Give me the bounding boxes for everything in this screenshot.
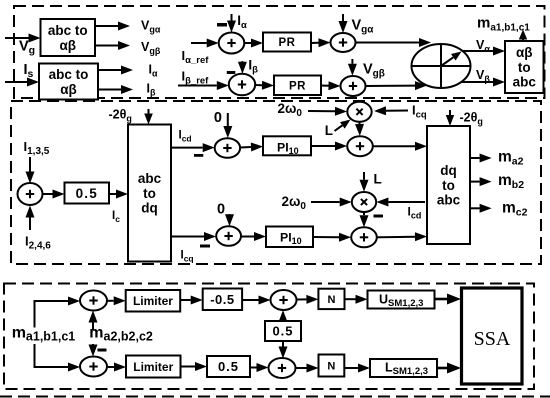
wire S3 to phasor circle: [356, 42, 420, 44]
wire Vgb feedforward arrow down: [351, 59, 353, 64]
summing junction S3 (alpha voltage): [331, 33, 356, 52]
wire 2w0 arrow into multiplier M2: [311, 201, 340, 203]
minus sign at S12: [98, 349, 107, 352]
wire U-SM to SSA (thick): [435, 298, 448, 301]
svg-text:abc to: abc to: [48, 23, 88, 38]
wire 0 arrow down into S6: [227, 113, 229, 126]
svg-text:N: N: [327, 294, 335, 306]
wire S7 to dq-abc: [373, 145, 415, 147]
summing junction S4 (beta voltage): [341, 76, 366, 96]
block abc-to-dq: [128, 125, 171, 262]
block gain 0.5 (mid): [265, 321, 301, 341]
wire S2 to PR2: [255, 84, 262, 86]
block SSA: [462, 288, 523, 384]
wire S11 to N1: [297, 298, 307, 300]
block Limiter (upper): [126, 290, 181, 312]
summing junction S10 (upper arm): [80, 291, 107, 311]
minus sign below M2: [374, 215, 384, 218]
wire Vg input arrow: [5, 37, 29, 39]
wire Limiter1 to -0.5: [180, 299, 191, 301]
multiplier M2 (cross coupling d): [352, 192, 376, 212]
summing junction S8 (q-axis error): [216, 226, 241, 246]
wire 0 arrow down into S8: [229, 213, 231, 216]
wire Icd from abc-dq to S6: [171, 147, 203, 149]
summing junction S12 (lower arm): [80, 357, 107, 377]
block N (upper): [318, 289, 344, 309]
svg-text:αβ: αβ: [60, 82, 77, 97]
svg-text:PR: PR: [279, 37, 296, 49]
wire L arrow down into M2: [363, 172, 365, 180]
wire I-alpha output arrow: [98, 69, 121, 71]
wire M1 down into S7: [359, 122, 361, 124]
svg-text:0: 0: [217, 202, 225, 218]
wire ma1b1c1 output arrow up: [522, 40, 524, 42]
block Limiter (lower): [126, 356, 181, 378]
block PR2 (proportional resonant): [274, 76, 321, 96]
wire ma1 branch vertical bottom: [34, 344, 36, 368]
minus sign at summing junction S2: [227, 71, 236, 74]
wire Vg-beta output arrow: [95, 45, 118, 47]
wire -2theta-g arrow down into dq-abc: [449, 110, 451, 115]
svg-text:SSA: SSA: [474, 328, 511, 350]
section 2 dashed border (circulating current loop): [11, 101, 541, 264]
wire PR2 to S4: [321, 85, 329, 87]
block gain -0.5: [203, 289, 242, 311]
svg-text:to: to: [442, 178, 455, 193]
block PI10 (q-axis): [266, 227, 313, 248]
svg-text:Limiter: Limiter: [133, 294, 173, 308]
bottom partial dashed line: [0, 396, 550, 398]
summing junction S13 (lower mod): [269, 358, 296, 378]
wire I-beta output arrow: [98, 89, 121, 91]
wire ma1 to S12: [34, 366, 69, 368]
wire I135 arrow down: [29, 157, 31, 172]
block N (lower): [319, 355, 345, 377]
wire V-alpha to alphabeta-abc box: [462, 50, 493, 52]
wire Icd arrow into M2 from right: [388, 201, 425, 203]
svg-text:L: L: [374, 172, 382, 187]
block PR1 (proportional resonant): [263, 33, 311, 52]
wire N2 to L-SM: [344, 367, 358, 369]
phasor/modulation circle: [412, 44, 471, 88]
wire V-beta to alphabeta-abc box: [461, 81, 493, 83]
wire L-SM to SSA (thick): [437, 367, 447, 370]
summing junction S2 (beta current error): [229, 74, 255, 96]
wire ma1 branch vertical top: [34, 301, 36, 328]
wire mb2 output arrow: [470, 181, 480, 183]
summing junction S1 (alpha current error): [219, 33, 245, 54]
svg-text:L: L: [325, 123, 333, 138]
wire S1 to PR1: [244, 42, 251, 44]
wire Vg-alpha output arrow: [95, 25, 118, 27]
wire mc2 output arrow: [470, 207, 480, 209]
block alphabeta-to-abc: [505, 41, 544, 93]
svg-text:dq: dq: [141, 201, 158, 216]
wire -0.5 to S11: [242, 299, 258, 301]
wire Ia feedback arrow down: [231, 14, 233, 21]
svg-text:dq: dq: [440, 163, 457, 178]
svg-text:0.5: 0.5: [76, 186, 98, 201]
svg-text:-0.5: -0.5: [210, 292, 234, 307]
svg-text:αβ: αβ: [59, 38, 76, 53]
multiplier M1 (cross coupling q): [347, 102, 371, 122]
wire Ib_ref input arrow: [178, 85, 217, 87]
svg-text:to: to: [518, 60, 531, 75]
wire PI10-q to S9: [313, 236, 339, 238]
block gain 0.5: [65, 183, 110, 204]
wire S4 to phasor circle: [366, 85, 416, 87]
wire 0.5 to S13: [250, 367, 257, 369]
wire 0.5 arrow down into S12b: [282, 341, 284, 347]
wire ma2 output arrow: [470, 157, 480, 159]
wire S9 to dq-abc: [377, 236, 415, 239]
svg-text:abc: abc: [513, 75, 537, 90]
wire S10 to Limiter1: [107, 300, 114, 302]
wire M2 down into S9: [363, 212, 365, 215]
svg-text:to: to: [143, 186, 156, 201]
summing junction S5 (current sum): [18, 183, 43, 205]
wire S5 to 0.5 gain: [43, 193, 53, 195]
block U_SM123: [368, 291, 435, 309]
svg-text:N: N: [327, 361, 335, 373]
wire PR1 to S3: [311, 42, 319, 44]
summing junction S6 (d-axis error): [215, 138, 240, 158]
wire ma1 to S10: [34, 300, 69, 302]
wire 0.5 arrow up into S11: [282, 321, 284, 322]
wire I246 arrow up: [29, 218, 31, 231]
svg-text:0.5: 0.5: [218, 359, 239, 374]
block abc-to-alphabeta (current): [39, 64, 98, 100]
block abc-to-alphabeta (voltage): [41, 19, 96, 56]
summing junction S9 (q-axis output): [351, 227, 377, 247]
wire Is input arrow: [5, 81, 27, 83]
svg-text:0: 0: [214, 110, 222, 126]
summing junction S7 (d-axis output): [347, 136, 373, 156]
wire S12 to Limiter2: [107, 366, 114, 368]
svg-text:abc: abc: [138, 171, 162, 186]
svg-text:PR: PR: [289, 80, 306, 92]
wire Ib feedback arrow down: [241, 60, 243, 63]
wire -2theta-g arrow down into abc-dq: [148, 109, 150, 114]
block dq-to-abc: [427, 126, 470, 244]
summing junction S11 (upper mod): [271, 290, 297, 310]
block L_SM123: [370, 359, 437, 377]
wire Vga feedforward arrow down: [342, 14, 344, 21]
wire N1 to U-SM: [345, 298, 356, 300]
wire ma2 arrow down into S12: [92, 343, 94, 346]
block gain 0.5 (lower): [207, 356, 250, 377]
wire Limiter2 to 0.5: [181, 366, 196, 368]
wire L arrow into M1: [335, 125, 343, 131]
wire 0.5 to abc-dq: [109, 193, 116, 195]
minus sign at summing junction S1: [217, 23, 227, 27]
wire 2w0 arrow into multiplier M1: [308, 110, 335, 112]
minus sign at S8: [200, 245, 210, 248]
svg-text:αβ: αβ: [516, 45, 533, 60]
minus sign at S6: [194, 154, 203, 157]
wire S8 to PI10 (q): [241, 236, 254, 238]
section 3 dashed border (modulation/SSA): [4, 284, 534, 390]
wire S6 to PI10 (d): [240, 146, 251, 149]
wire Icq arrow into M1 from right: [386, 110, 408, 112]
svg-text:abc: abc: [437, 193, 461, 208]
wire Icq from abc-dq to S8: [171, 236, 204, 238]
wire S13 to N2: [296, 367, 307, 369]
svg-text:0.5: 0.5: [272, 324, 293, 339]
section 1 dashed border (voltage control loop): [14, 6, 545, 98]
wire ma2 arrow up into S10: [92, 323, 94, 331]
wire Ia_ref input arrow: [191, 42, 207, 44]
svg-text:Limiter: Limiter: [133, 360, 173, 374]
svg-text:abc to: abc to: [49, 67, 89, 82]
block PI10 (d-axis): [263, 136, 311, 155]
wire PI10-d to S7: [311, 145, 335, 147]
